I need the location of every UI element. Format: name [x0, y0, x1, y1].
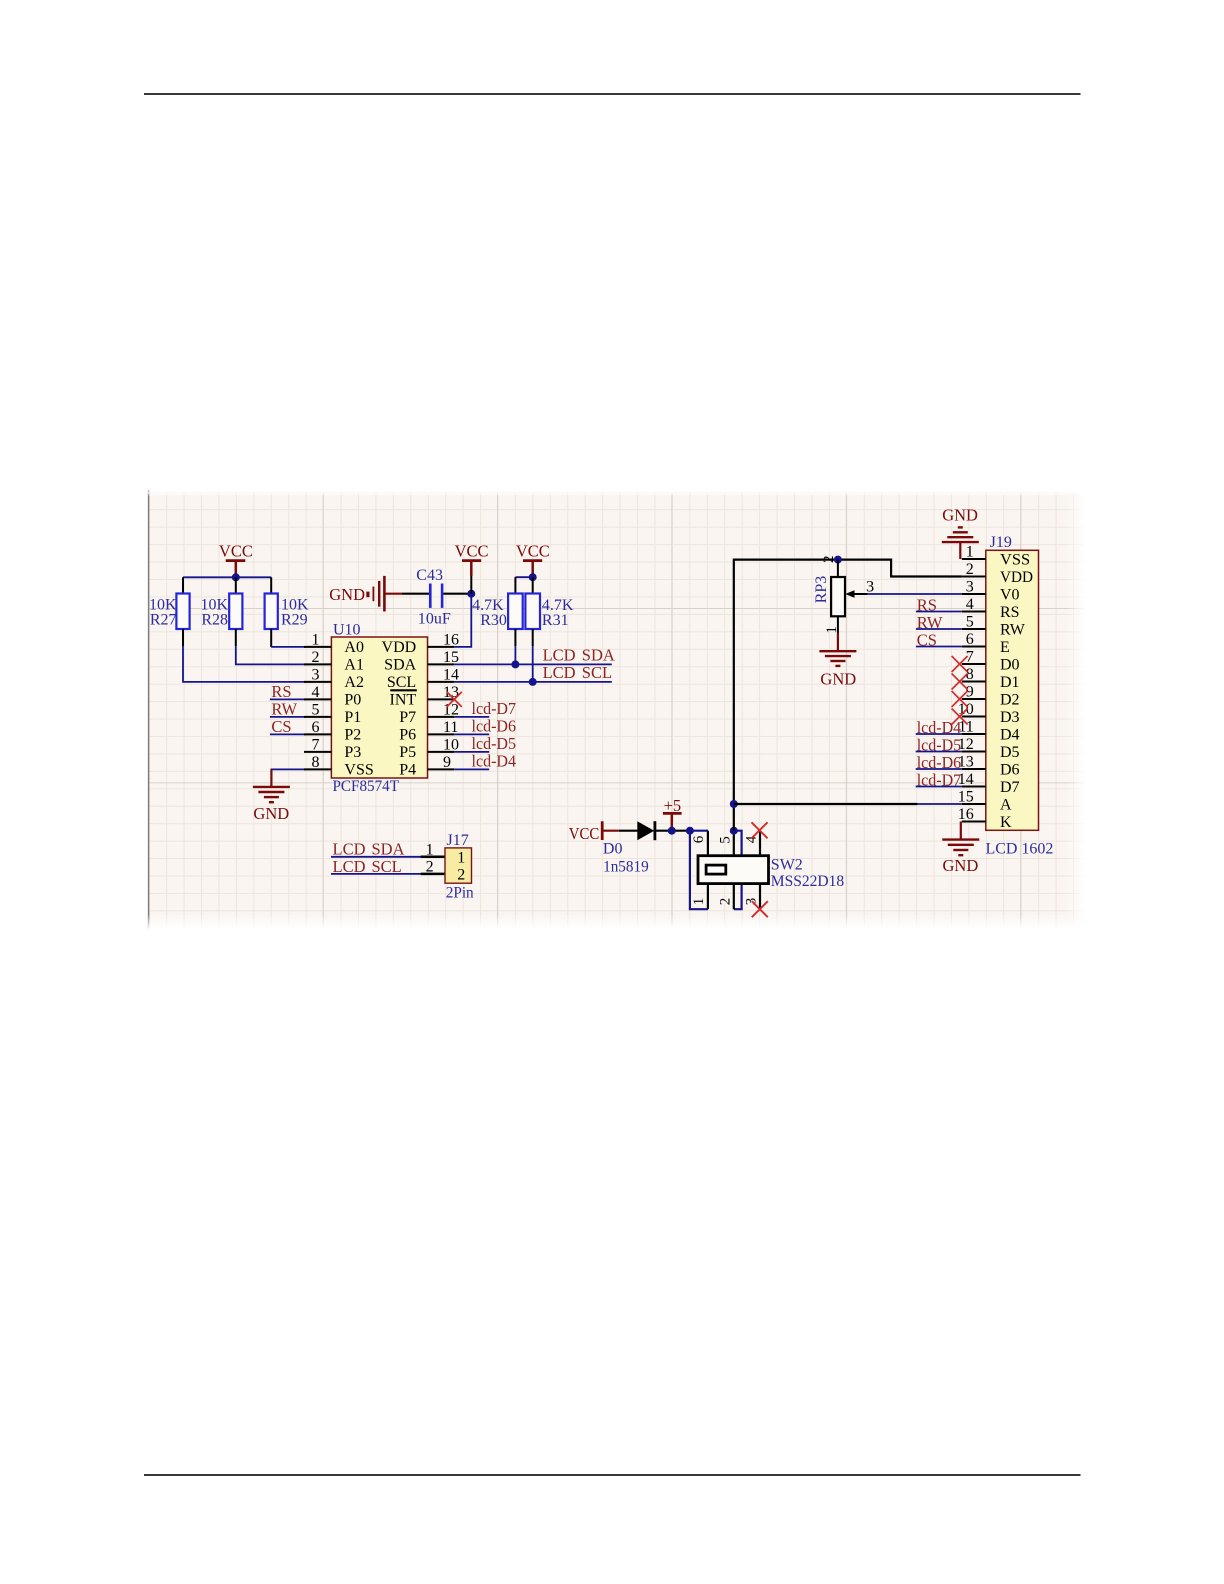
- svg-text:6: 6: [691, 835, 707, 843]
- svg-text:4: 4: [312, 684, 320, 701]
- wire lcd-D7 to J19: [916, 786, 962, 788]
- no-connect X on U10 pin13: [447, 692, 462, 707]
- svg-text:8: 8: [312, 754, 320, 771]
- wire LCD SCL to J17 pin2: [331, 873, 421, 875]
- svg-text:K: K: [1000, 814, 1012, 831]
- svg-text:9: 9: [443, 754, 451, 771]
- svg-text:P0: P0: [344, 691, 361, 708]
- svg-text:VCC: VCC: [219, 542, 253, 561]
- svg-text:RW: RW: [271, 700, 297, 719]
- wire RP3 pin1 to ground: [837, 633, 839, 651]
- svg-text:4: 4: [743, 835, 759, 843]
- wire lcd-D4 (U10): [454, 768, 489, 770]
- wire A row to J19 pin15: [734, 803, 918, 805]
- svg-text:lcd-D6: lcd-D6: [472, 716, 517, 735]
- wire VDD rail (SW2 up, across, down to J19 VDD): [734, 560, 962, 831]
- wire R27 to U10 pin3: [183, 646, 306, 682]
- header rule: [144, 93, 1081, 95]
- svg-text:1: 1: [824, 626, 840, 634]
- resistor R28: [200, 577, 242, 646]
- J19 pin stubs 1-16: [962, 559, 986, 822]
- svg-text:11: 11: [443, 719, 458, 736]
- svg-text:3: 3: [743, 898, 759, 906]
- wire U10 VSS to ground: [271, 769, 306, 786]
- ground GND (below RP3): [819, 650, 856, 652]
- power port +5: [663, 796, 682, 831]
- svg-text:1: 1: [457, 850, 465, 867]
- svg-text:SCL: SCL: [387, 674, 416, 691]
- junction VCC/R30/R31: [529, 573, 537, 581]
- wire CS to U10 pin6: [270, 733, 306, 735]
- svg-text:D3: D3: [1000, 709, 1020, 726]
- wire RW to J19 pin5: [916, 628, 962, 630]
- svg-text:GND: GND: [820, 670, 856, 689]
- ground GND (below J19 K): [942, 838, 979, 840]
- svg-text:MSS22D18: MSS22D18: [771, 873, 844, 890]
- power port VCC (above C43 junction): [455, 542, 489, 594]
- wire U10 pin16 up to VCC/C43 junction: [454, 594, 471, 647]
- U10 left pin names: [344, 639, 373, 779]
- svg-text:R27: R27: [150, 612, 177, 629]
- svg-text:PCF8574T: PCF8574T: [333, 778, 400, 795]
- junction +5 tap: [668, 827, 676, 835]
- svg-text:P1: P1: [344, 709, 361, 726]
- svg-text:2: 2: [457, 866, 465, 883]
- wire C43 to junction: [443, 593, 471, 595]
- svg-text:1: 1: [312, 631, 320, 648]
- svg-text:14: 14: [443, 666, 459, 683]
- junction RP3 top: [834, 556, 842, 564]
- svg-text:4: 4: [966, 596, 974, 613]
- wire SDA net (pin15): [454, 663, 612, 665]
- svg-text:D1: D1: [1000, 674, 1020, 691]
- no-connect X on J19 pin10: [952, 709, 968, 725]
- svg-text:R30: R30: [480, 612, 507, 629]
- svg-text:lcd-D7: lcd-D7: [472, 699, 517, 718]
- junction SW2 pin5/A wire: [730, 827, 738, 835]
- svg-text:5: 5: [312, 701, 320, 718]
- power port VCC (diode feed): [569, 821, 619, 843]
- wire J19 K pin to ground: [960, 822, 962, 840]
- no-connect X on SW2 pin4: [752, 822, 768, 838]
- wire VCC rail to R27/R28/R29: [183, 576, 271, 578]
- wire R29 to U10 pin1: [271, 646, 306, 648]
- svg-text:5: 5: [966, 613, 974, 630]
- svg-text:lcd-D4: lcd-D4: [472, 751, 517, 770]
- svg-text:lcd-D5: lcd-D5: [472, 734, 517, 753]
- svg-text:2: 2: [718, 898, 734, 906]
- capacitor C43 10uF: [416, 567, 451, 628]
- junction C43/VCC/pin16: [467, 590, 475, 598]
- svg-text:GND: GND: [329, 585, 365, 604]
- J19 pin names: [1000, 552, 1033, 832]
- svg-text:2: 2: [426, 859, 434, 876]
- wire RS to U10 pin4: [270, 698, 306, 700]
- svg-text:15: 15: [443, 649, 459, 666]
- svg-text:A0: A0: [344, 639, 364, 656]
- svg-text:A1: A1: [344, 656, 364, 673]
- wire lcd-D6 (U10): [454, 733, 489, 735]
- svg-text:RS: RS: [1000, 604, 1020, 621]
- resistor R27: [149, 577, 190, 646]
- wire RW to U10 pin5: [270, 716, 306, 718]
- ground GND (power bar, left of C43): [329, 576, 402, 612]
- junction R30/SDA: [511, 660, 519, 668]
- wire lcd-D7 (U10): [454, 716, 489, 718]
- svg-text:D0: D0: [603, 841, 623, 858]
- no-connect X on J19 pin7: [952, 656, 968, 672]
- svg-text:LCD 1602: LCD 1602: [986, 841, 1054, 858]
- svg-text:R28: R28: [201, 612, 228, 629]
- no-connect X on J19 pin8: [952, 674, 968, 690]
- svg-text:16: 16: [958, 806, 974, 823]
- svg-text:RS: RS: [271, 682, 291, 701]
- no-connect X on SW2 pin3: [752, 901, 768, 917]
- wire loop SW2 pin6 to pin1: [690, 831, 708, 910]
- svg-text:3: 3: [966, 578, 974, 595]
- svg-text:+5: +5: [664, 796, 682, 815]
- svg-text:2Pin: 2Pin: [446, 884, 474, 901]
- svg-text:1n5819: 1n5819: [603, 859, 649, 876]
- wire R31 to SCL: [532, 646, 534, 682]
- svg-text:P3: P3: [344, 744, 361, 761]
- svg-text:VCC: VCC: [516, 542, 550, 561]
- svg-text:5: 5: [718, 836, 734, 844]
- wire SCL net (pin14): [454, 681, 612, 683]
- ground GND (above J19 pin1, inverted): [942, 506, 979, 559]
- svg-text:D5: D5: [1000, 744, 1020, 761]
- wire CS to J19 pin6: [916, 646, 962, 648]
- svg-text:10uF: 10uF: [418, 611, 451, 628]
- svg-text:SW2: SW2: [771, 857, 803, 874]
- svg-text:J19: J19: [990, 534, 1012, 551]
- svg-text:D4: D4: [1000, 727, 1020, 744]
- U10 SCL underline: [390, 689, 417, 691]
- svg-text:P6: P6: [399, 726, 416, 743]
- svg-text:VDD: VDD: [1000, 569, 1033, 586]
- junction VCC rail: [232, 573, 240, 581]
- connector J17 2Pin: [445, 832, 474, 901]
- U10 left pin stubs 1-8: [304, 647, 331, 770]
- svg-text:GND: GND: [253, 804, 289, 823]
- svg-text:16: 16: [443, 631, 459, 648]
- svg-text:15: 15: [958, 788, 974, 805]
- resistor R31: [525, 577, 574, 646]
- ground GND (below U10 VSS): [270, 769, 272, 787]
- svg-text:GND: GND: [942, 506, 978, 525]
- svg-text:1: 1: [966, 543, 974, 560]
- connector J19 LCD 1602 body: [986, 534, 1054, 858]
- svg-text:D6: D6: [1000, 762, 1020, 779]
- wire R30 to SDA: [514, 646, 516, 664]
- svg-text:1: 1: [426, 842, 434, 859]
- svg-text:R29: R29: [281, 612, 308, 629]
- wire VCC to diode D0: [619, 830, 638, 832]
- wire GND bar to C43: [402, 593, 429, 595]
- wire RS to J19 pin4: [916, 611, 962, 613]
- svg-text:VSS: VSS: [1000, 552, 1030, 569]
- no-connect X on J19 pin9: [952, 691, 968, 707]
- wire R28 to U10 pin2: [236, 646, 306, 664]
- U10 right pin numbers: [443, 631, 459, 771]
- svg-text:C43: C43: [416, 567, 443, 584]
- svg-text:D7: D7: [1000, 779, 1020, 796]
- svg-text:P7: P7: [399, 709, 416, 726]
- wire lcd-D4 to J19: [916, 733, 962, 735]
- svg-text:E: E: [1000, 639, 1010, 656]
- svg-text:2: 2: [966, 561, 974, 578]
- svg-text:3: 3: [866, 578, 874, 595]
- IC U10 PCF8574T body: [331, 621, 427, 795]
- wire VCC to R30: [515, 576, 532, 578]
- U10 right pin names: [382, 639, 417, 779]
- power port VCC (top-left): [219, 542, 253, 578]
- svg-text:VSS: VSS: [344, 761, 373, 778]
- junction R31/SCL: [529, 678, 537, 686]
- resistor R29: [265, 577, 309, 647]
- wire LCD SDA to J17 pin1: [331, 856, 421, 858]
- junction A-row tap: [730, 800, 738, 808]
- J19 pin numbers: [958, 543, 974, 823]
- svg-text:D2: D2: [1000, 692, 1020, 709]
- power port VCC (above R30/R31): [516, 542, 550, 578]
- svg-text:INT: INT: [390, 691, 417, 708]
- svg-text:2: 2: [312, 649, 320, 666]
- wire lcd-D5 (U10): [454, 751, 489, 753]
- wire loop SW2 pin5 to pin2: [734, 831, 742, 910]
- svg-text:VCC: VCC: [455, 542, 489, 561]
- svg-text:D0: D0: [1000, 657, 1020, 674]
- diode D0 1n5819: [603, 821, 655, 875]
- svg-text:P5: P5: [399, 744, 416, 761]
- schematic sheet background grid: [148, 491, 1087, 930]
- svg-text:J17: J17: [447, 832, 469, 849]
- wire lcd-D6 to J19: [916, 768, 962, 770]
- svg-text:A2: A2: [344, 674, 364, 691]
- SW2 rotated pin numbers: [691, 835, 759, 905]
- svg-text:VDD: VDD: [382, 639, 417, 656]
- svg-text:A: A: [1000, 797, 1012, 814]
- svg-text:3: 3: [312, 666, 320, 683]
- svg-text:10: 10: [443, 736, 459, 753]
- svg-text:6: 6: [966, 631, 974, 648]
- svg-text:RW: RW: [1000, 622, 1026, 639]
- svg-text:U10: U10: [333, 621, 361, 638]
- svg-text:7: 7: [312, 736, 320, 753]
- svg-text:P4: P4: [399, 761, 416, 778]
- junction SW2 pin6 feed: [686, 827, 694, 835]
- svg-text:6: 6: [312, 719, 320, 736]
- svg-text:R31: R31: [542, 612, 569, 629]
- svg-text:2: 2: [821, 556, 837, 564]
- U10 left pin numbers: [312, 631, 320, 771]
- svg-text:1: 1: [691, 898, 707, 906]
- svg-text:CS: CS: [271, 717, 291, 736]
- wire diode to SW2: [656, 830, 690, 832]
- wire lcd-D5 to J19: [916, 751, 962, 753]
- svg-text:GND: GND: [943, 856, 979, 875]
- resistor R30: [472, 577, 523, 646]
- U10 right pin stubs 16-9: [428, 647, 455, 770]
- svg-text:RP3: RP3: [813, 576, 830, 604]
- wire RP3 wiper to J19 V0: [868, 593, 962, 595]
- potentiometer RP3: [813, 560, 868, 634]
- footer rule: [144, 1474, 1081, 1476]
- svg-text:V0: V0: [1000, 587, 1020, 604]
- svg-text:P2: P2: [344, 726, 361, 743]
- svg-text:SDA: SDA: [384, 656, 416, 673]
- svg-text:VCC: VCC: [569, 824, 600, 843]
- switch SW2 MSS22D18: [698, 831, 844, 910]
